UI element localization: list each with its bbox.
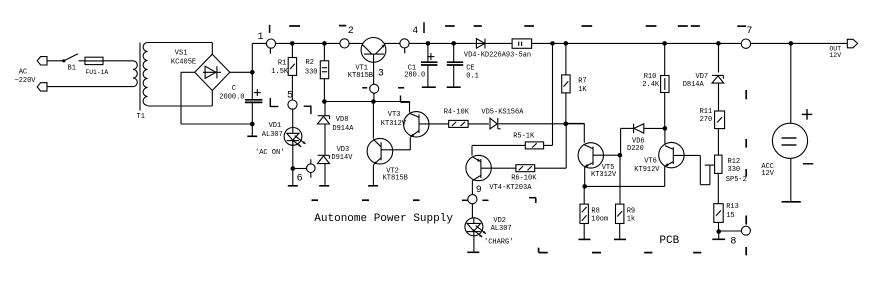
bottom rail mid [585, 185, 665, 187]
svg-text:330: 330 [728, 166, 741, 174]
resistor R5 1K [525, 142, 543, 149]
svg-text:VD8: VD8 [336, 116, 349, 124]
svg-text:R13: R13 [726, 203, 739, 211]
svg-text:R8: R8 [591, 208, 599, 216]
mid bus wire [322, 99, 327, 104]
transistor VT2 KT815B [372, 102, 374, 139]
capacitor C 2000.0 [251, 72, 253, 99]
border corner sub-box bottom-left [538, 248, 540, 253]
svg-text:1K: 1K [578, 86, 587, 94]
junction battery [789, 41, 794, 46]
border dashes bottom main [312, 199, 319, 201]
fuse FU1-1A [85, 57, 103, 64]
svg-text:6: 6 [297, 173, 303, 184]
svg-text:330: 330 [305, 69, 318, 77]
wire [323, 79, 325, 102]
capacitor C1 280.0 [427, 43, 429, 61]
svg-text:KT312V: KT312V [591, 171, 617, 179]
junction R2 [322, 41, 327, 46]
wire bridge left vertex to minus rail [181, 71, 195, 73]
zener VD5 KS156A [490, 118, 497, 129]
LED VD2 AL307 [465, 218, 483, 236]
svg-text:2000.0: 2000.0 [219, 93, 244, 101]
capacitor CE 0.1 [453, 43, 455, 61]
svg-text:VD2: VD2 [493, 217, 506, 225]
resistor R6 10K [516, 165, 535, 172]
bracket mark below node4 [400, 96, 402, 103]
wire secondary top to bridge [148, 42, 213, 44]
svg-text:1: 1 [258, 32, 264, 43]
junction vertical A [550, 41, 555, 46]
VT6 base wire to R12 wiper [674, 154, 700, 156]
node 9 [468, 195, 477, 204]
diode VD4 KD226 [476, 39, 484, 49]
junction R7 [564, 41, 569, 46]
wire [718, 83, 720, 111]
ground stub VD3 branch [319, 185, 329, 187]
wire VT5 base to VD6 [620, 128, 622, 155]
svg-text:AC: AC [19, 69, 27, 77]
svg-text:8: 8 [730, 236, 736, 247]
svg-text:VS1: VS1 [175, 49, 188, 57]
svg-text:VT4-KT203A: VT4-KT203A [489, 184, 532, 192]
node 8 [741, 226, 750, 235]
svg-text:R10: R10 [644, 73, 657, 81]
svg-text:R6-10K: R6-10K [511, 174, 537, 182]
svg-text:C: C [232, 85, 236, 93]
svg-text:'AC ON': 'AC ON' [255, 149, 284, 157]
wire R6 to VD5 node [535, 167, 567, 169]
junction R7 bottom [564, 122, 569, 127]
zener VD8 D914A [324, 102, 326, 116]
zener VD3 D914V [318, 154, 330, 156]
border corner sub-box top-left [529, 197, 536, 199]
wire [717, 129, 719, 156]
svg-text:AL307: AL307 [491, 225, 512, 233]
wire and junction [718, 222, 720, 231]
node 2 [340, 39, 349, 48]
switch B1 [62, 59, 65, 62]
wire VD5 to VT5 collector [499, 123, 585, 125]
svg-text:VT3: VT3 [388, 111, 401, 119]
AC plug connector top [37, 57, 47, 65]
trimmer R12 330 SP5-2 [715, 155, 722, 173]
junction node6 tap [291, 166, 296, 171]
transistor VT1 KT815B [361, 38, 386, 63]
resistor R7 1K [565, 43, 567, 75]
svg-text:0.1: 0.1 [466, 72, 479, 80]
svg-text:R1: R1 [278, 60, 286, 68]
border dashes bottom sub-box [592, 252, 601, 254]
resistor R2 330 [323, 43, 325, 60]
svg-text:4: 4 [412, 26, 418, 37]
junction C1 [426, 41, 431, 46]
border dashes right edge [745, 90, 747, 99]
svg-text:AL307: AL307 [262, 131, 283, 139]
svg-text:15: 15 [726, 212, 734, 220]
border tick node1 [269, 25, 271, 33]
svg-text:1k: 1k [627, 216, 635, 224]
svg-text:VD4-KD226A93-5an: VD4-KD226A93-5an [464, 51, 531, 59]
wire [468, 123, 489, 125]
ground stub VD1 branch [288, 185, 298, 187]
svg-text:1.5K: 1.5K [271, 68, 289, 76]
transformer T1 core [139, 43, 141, 111]
junction CE [451, 41, 456, 46]
svg-text:KT815B: KT815B [348, 72, 373, 80]
wire [47, 60, 64, 62]
link box on rail [512, 39, 532, 48]
node 4 [400, 39, 409, 48]
node 7 [741, 39, 750, 48]
svg-text:VD5-KS156A: VD5-KS156A [481, 108, 524, 116]
svg-text:7: 7 [746, 26, 752, 37]
svg-text:2: 2 [348, 26, 354, 37]
wire [47, 86, 133, 88]
resistor R9 1k [619, 155, 621, 204]
node plus junction [250, 70, 255, 75]
junction VT5 base [618, 153, 623, 158]
svg-text:VD3: VD3 [337, 146, 350, 154]
transistor VT3 KT312V [409, 102, 411, 113]
junction R1 [290, 41, 295, 46]
transistor VT5 KT312V [578, 143, 603, 168]
node 5 [288, 100, 297, 109]
wire [644, 127, 665, 129]
svg-text:2.4K: 2.4K [642, 81, 660, 89]
ground stub VT2 [368, 185, 378, 187]
junction VD6 R10 VT6 [663, 126, 668, 131]
resistor R1 1.5K [291, 43, 293, 57]
wire bridge right vertex to plus node [230, 71, 253, 73]
output arrow OUT 12V [847, 39, 857, 48]
svg-text:10om: 10om [591, 216, 608, 224]
svg-text:3: 3 [378, 68, 384, 79]
svg-text:D814A: D814A [683, 81, 705, 89]
wire [565, 93, 567, 124]
junction VD7 column [716, 41, 721, 46]
svg-text:280.0: 280.0 [404, 71, 425, 79]
diode VD6 D220 [633, 124, 635, 133]
wire [324, 164, 326, 185]
resistor R4 10K [449, 120, 468, 127]
battery ACC 12V [790, 43, 792, 123]
transistor VT6 KT912V [664, 128, 666, 144]
svg-text:VD7: VD7 [696, 73, 709, 81]
svg-text:12V: 12V [829, 52, 841, 59]
svg-text:SP5-2: SP5-2 [726, 176, 747, 184]
svg-text:270: 270 [700, 116, 713, 124]
transformer T1 primary winding [133, 61, 137, 87]
svg-text:R9: R9 [627, 208, 635, 216]
LED VD1 AL307 [284, 127, 302, 145]
node 3 [370, 84, 379, 93]
wire [373, 93, 375, 101]
svg-text:R4-10K: R4-10K [444, 108, 470, 116]
wire [292, 145, 294, 185]
wire secondary bottom to bridge [148, 105, 213, 107]
svg-text:5: 5 [287, 90, 293, 101]
wire to VT5 collector [566, 122, 585, 124]
svg-text:KC405E: KC405E [171, 58, 196, 66]
wire [291, 75, 293, 100]
wire [324, 124, 326, 155]
border dashes top [289, 25, 300, 27]
zener VD7 D814A [712, 74, 723, 76]
bracket mark L left of node5 [269, 98, 271, 107]
svg-text:12V: 12V [761, 170, 774, 178]
top supply rail [252, 42, 847, 44]
svg-text:KT815B: KT815B [383, 174, 408, 182]
svg-text:PCB: PCB [659, 235, 679, 247]
minus rail junction and stub [250, 122, 255, 127]
junction VT5 emitter [582, 184, 587, 189]
svg-text:D220: D220 [627, 145, 644, 153]
bridge rectifier VS1 KC405E [195, 54, 230, 90]
svg-text:9: 9 [476, 185, 482, 196]
ground stub VD2 [467, 251, 479, 253]
svg-text:Autonome Power Supply: Autonome Power Supply [314, 213, 453, 225]
svg-text:~220V: ~220V [15, 77, 37, 85]
svg-text:D914A: D914A [332, 125, 354, 133]
resistor R10 2.4K [664, 43, 666, 75]
wire [292, 109, 294, 127]
svg-text:B1: B1 [68, 65, 76, 73]
svg-text:R7: R7 [578, 78, 586, 86]
transformer T1 secondary winding [143, 43, 148, 106]
transistor VT4 KT203A [471, 145, 473, 155]
bracket mark near node5 [304, 105, 312, 107]
svg-text:FU1-1A: FU1-1A [86, 69, 109, 76]
wire [471, 204, 473, 219]
resistor R8 10om [583, 186, 585, 204]
node 6 [307, 164, 316, 173]
node 1 [266, 39, 275, 48]
svg-text:R12: R12 [728, 158, 741, 166]
wire [473, 236, 475, 252]
wire rail to VD7 [718, 43, 720, 72]
svg-text:T1: T1 [137, 113, 145, 121]
svg-text:D914V: D914V [331, 154, 353, 162]
resistor R13 15 [714, 204, 723, 223]
svg-text:VT6: VT6 [644, 158, 657, 166]
svg-text:KT912V: KT912V [634, 166, 660, 174]
junction R10 [662, 41, 667, 46]
wire [717, 173, 719, 203]
svg-text:R2: R2 [306, 59, 314, 67]
resistor R11 270 [715, 111, 725, 129]
wire [103, 60, 133, 62]
vertical feed A [552, 43, 554, 145]
svg-text:'CHARG': 'CHARG' [484, 239, 513, 247]
svg-text:KT312V: KT312V [381, 120, 407, 128]
svg-text:VD1: VD1 [269, 122, 282, 130]
svg-text:R5-1K: R5-1K [513, 132, 535, 140]
AC plug connector bottom [37, 83, 47, 91]
